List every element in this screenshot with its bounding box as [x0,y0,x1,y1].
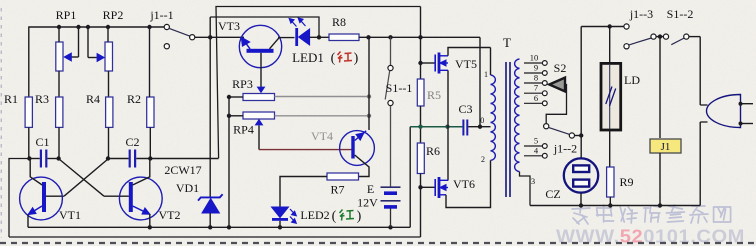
wire R3 bottom [58,127,60,158]
svg-text:(: ( [331,51,336,66]
resistor R6 [417,143,424,174]
node center tap [478,125,482,129]
wire cross C1-to-VT2base [59,159,104,196]
wire VT1 base stub [46,195,64,197]
wire J1 feed [659,37,661,138]
contact j1--3 out [651,34,656,39]
svg-text:CZ: CZ [545,187,560,201]
wire R1 bottom [28,127,30,158]
wire R7 left to LED2 [280,177,327,207]
node C2 right junction [148,156,152,160]
transformer core [506,62,510,197]
wire j1--3 to S1--2 [656,36,663,38]
svg-text:R2: R2 [127,92,141,106]
contact S1--1 top [388,65,393,70]
transistor VT6 MOSFET [435,177,448,198]
wire right main vertical [580,27,582,159]
wire secondary tap 3 [520,172,531,206]
svg-text:LED1: LED1 [292,50,324,65]
contact tap 8 [542,81,547,86]
wire top right [581,26,624,28]
transistor VT2 [119,177,162,220]
svg-text:VT3: VT3 [218,19,240,33]
socket CZ [564,158,598,192]
wire bottom rail left [28,226,410,228]
wire inner top link to R8 node [210,17,319,37]
RP1 wiper arrow [63,52,72,61]
node top rail x=78.5 [76,25,80,29]
wire rail down to center tap [479,37,481,126]
wire secondary tap 8 [524,82,542,84]
wire R5 feed from top [420,7,422,80]
wire RP2 bottom to R4 [108,71,110,97]
selector switch S2 wiper [549,78,565,92]
svg-text:RP4: RP4 [233,123,254,137]
svg-text:S2: S2 [554,61,567,75]
svg-text:j1--2: j1--2 [553,142,577,156]
svg-text:(: ( [332,209,337,224]
resistor R4 [106,97,113,127]
node green C3 [445,125,449,129]
contact j1--2 out [569,133,574,138]
node C2 left junction [106,156,110,160]
contact tap 5 [542,144,547,149]
wire C2 right [136,158,218,160]
wire R5 to green node [420,106,422,127]
wire VD1 cathode up [209,17,211,197]
transistor VT1 [20,177,63,220]
node S1--1 top [388,35,392,39]
LD center wire [609,65,611,129]
svg-text:1: 1 [484,70,488,79]
svg-text:LD: LD [624,73,640,87]
node R8 out [366,35,370,39]
node top rail x=88 [86,25,90,29]
contact S1--2 right [684,34,689,39]
node R9 bottom [608,203,612,207]
contact S1--2 left [663,34,668,39]
svg-text:R8: R8 [332,15,346,29]
capacitor C2 [130,150,135,168]
resistor R3 [56,97,63,127]
wire green node to R6 [420,127,422,143]
svg-text:VT5: VT5 [455,57,477,71]
wire LED2 down [279,221,281,228]
wire R9 down [609,197,611,206]
LED1 emission arrows [289,18,305,26]
label red char hong [338,52,353,63]
speaker stub bottom right [741,123,754,125]
svg-text:R9: R9 [619,175,633,189]
svg-text:9: 9 [534,63,538,73]
label green char lv [340,210,355,221]
svg-text:VT6: VT6 [453,177,475,191]
resistor R9 [607,167,614,197]
wire CZ down [580,193,582,206]
wire left section outline [9,159,29,238]
wire R8 right rail [359,36,480,38]
wire R2 bottom [149,127,151,158]
svg-text:8: 8 [534,73,538,83]
wire bottom rail right [530,205,700,207]
speaker stub top left [700,104,707,106]
resistor R1 [25,97,32,127]
svg-text:): ) [354,51,359,66]
wire green horizontal [410,126,462,128]
node bottom rail battery [388,225,392,229]
node bottom rail VD1 [208,225,212,229]
wire S1--2 to speaker [689,36,700,38]
lamp LD [601,63,621,130]
svg-text:S1--2: S1--2 [667,7,694,21]
wire R1 top feed [28,26,30,97]
wire secondary tap 6 [524,102,542,104]
wire secondary tap 5 [524,145,542,147]
resistor R8 [329,34,359,41]
svg-text:j1--1: j1--1 [149,8,173,22]
LED2 emission arrows [290,209,296,223]
node VD1 top [208,35,212,39]
svg-text:): ) [357,209,362,224]
svg-text:E: E [367,182,374,196]
wire cross C2-to-VT1base [64,159,108,196]
svg-text:VT1: VT1 [59,208,81,222]
svg-text:VT4: VT4 [311,129,333,143]
node LED1-R8 junction [317,35,321,39]
contact tap 4 [542,153,547,158]
j1--1 arm [169,28,190,36]
svg-text:7: 7 [534,83,538,93]
node RP4 left [227,114,231,118]
transistor VT3 [239,25,281,67]
node top rail x=108 [106,25,110,29]
wire RP3 right grey [275,96,370,98]
wire RP4 right grey [275,115,370,117]
contact tap 6 [542,101,547,106]
wire VT1 emitter down [27,215,29,228]
svg-text:6: 6 [534,93,538,103]
svg-text:C3: C3 [458,102,472,116]
contact j1--3 lower [624,44,629,49]
wire RP2 wiper up [87,27,89,58]
svg-text:RP1: RP1 [56,8,77,22]
node LD feed [608,24,612,28]
VT3 emitter arrow [242,38,250,49]
contact tap 10 [542,61,547,66]
wire RP1 top [58,27,60,42]
node speaker pin2 [739,122,743,126]
node top rail x=149.5 [147,25,151,29]
wire speaker feed down [699,37,701,105]
svg-text:3: 3 [531,176,535,186]
speaker stub bottom left [700,121,707,123]
wire S1--1 down to battery [390,106,392,187]
node speaker pin1 [739,102,743,106]
contact j1--1 common [164,24,169,29]
RP1 wiper line [69,56,79,58]
contact tap 9 [542,71,547,76]
node bottom rail RP bus [227,225,231,229]
svg-text:5: 5 [534,136,538,146]
potentiometer RP1 [56,42,63,71]
wire VT1 collector [30,159,42,186]
wire center tap [480,126,491,128]
node top rail x=59 [57,25,61,29]
svg-text:10: 10 [530,53,539,63]
wire VT5 source down [447,70,449,180]
wire VT6 source down [446,190,491,208]
node VT6 gate [418,185,422,189]
resistor R2 [147,97,154,127]
wire RP3 left [229,96,243,98]
wire RP4 left [229,115,243,117]
node VT5 gate [418,61,422,65]
wire VD1 anode down [209,213,211,227]
wire VT2 emitter down [149,214,151,227]
RP3 wiper arrow [257,87,266,94]
capacitor C3 [463,120,467,136]
S1--2 arm [671,38,684,45]
svg-text:R1: R1 [4,92,18,106]
wire C1 left [29,158,39,160]
wire VT5 drain up [448,48,491,56]
wire S1--1 top [390,37,392,65]
wire VT2 collector [133,159,150,186]
svg-text:RP2: RP2 [103,8,124,22]
wire VT6 gate lead [421,186,435,188]
wire R8node to VT4 collector [368,37,370,130]
wire battery minus down [390,207,392,227]
resistor R5 [417,79,424,106]
wire secondary tap 4 [524,155,542,157]
svg-text:R4: R4 [86,92,100,106]
j1--3 arm [629,38,651,45]
node RP4 right grey [367,114,371,118]
node J1 bottom [658,203,662,207]
wire RP1 wiper up [78,27,80,57]
speaker stub top right [741,103,754,105]
svg-text:0: 0 [480,116,484,125]
svg-text:S1--1: S1--1 [386,81,413,95]
capacitor C1 [41,150,46,168]
wire bottom outline [9,236,421,238]
potentiometer RP3 [243,94,275,101]
wire C1 right [47,158,58,160]
node bottom rail LED2 [278,225,282,229]
wire VT4 base maroon [259,149,352,151]
wire secondary tap 7 [524,92,542,94]
wire VT3 collector to LED1 [278,37,295,39]
RP4 wiper arrow [255,119,264,126]
VT4 collector arrow [355,131,367,141]
svg-text:J1: J1 [661,141,671,153]
wire R4 bottom [108,127,110,158]
resistor R7 [327,173,359,180]
wire VT2 base stub [104,195,129,197]
svg-text:LED2: LED2 [300,208,329,222]
RP2 wiper arrow [97,53,106,62]
speaker HA [707,95,741,128]
transistor VT4 [340,131,375,166]
svg-text:12V: 12V [357,196,378,210]
node C1 left junction [27,156,31,160]
contact S1--1 bottom [388,100,393,105]
node J1 feed [658,34,662,38]
svg-text:R3: R3 [35,92,49,106]
wire RP4 wiper down [258,126,260,150]
node bottom rail VT2 emitter [148,225,152,229]
wire j1--1 to VT3 emitter [195,36,244,38]
potentiometer RP2 [105,42,113,71]
svg-text:2CW17: 2CW17 [164,163,201,177]
svg-text:j1--3: j1--3 [629,7,653,21]
wire primary bottom [490,160,492,190]
S1--1 arm [385,71,390,100]
wire center-tap feed down [409,127,411,228]
wire VT3 collector [270,38,280,49]
wire speaker return [699,122,701,206]
node CZ bottom [579,203,583,207]
transistor VT5 MOSFET [435,53,448,74]
svg-text:R6: R6 [426,144,440,158]
wire RP1 bottom to R3 [58,71,60,97]
wire C2 left [108,158,129,160]
wire secondary tap 10 [524,62,542,64]
svg-text:C2: C2 [125,135,139,149]
VT1 emitter arrow [29,206,42,214]
node RP3 left [227,95,231,99]
j1--2 arm [548,127,569,134]
wire j1--2 to main [574,135,581,137]
wire VT3 base down [260,53,262,88]
node green R5R6 [418,125,422,129]
node j1--2 junction [579,133,583,137]
wire R6 down [420,174,422,238]
wire top supply rail left section [29,26,165,28]
node RP3 right grey [367,94,371,98]
contact j1--3 common [624,24,629,29]
watermark chinese characters [572,205,590,224]
svg-text:2: 2 [481,155,485,164]
node R5 feed [418,35,422,39]
wire LD top [609,27,611,64]
wire RP2 top [107,27,109,42]
svg-text:VT2: VT2 [159,208,181,222]
wire RP bus down [228,97,230,227]
contact j1--1 unused [164,44,169,49]
svg-text:C1: C1 [35,135,49,149]
wire C3 right [468,126,480,128]
svg-text:R7: R7 [330,183,344,197]
LD slashes [606,87,616,107]
wire R2 top feed [149,27,151,97]
wire VT4 emitter [355,155,369,177]
wire LED1 to R8 [310,36,329,38]
svg-text:RP3: RP3 [232,77,253,91]
transformer T primary winding [491,75,496,160]
potentiometer RP4 [243,112,275,119]
VT2 emitter arrow [133,206,150,214]
wire VT5 gate lead [421,62,436,64]
relay coil J1 [650,139,681,153]
LED LED1 [295,28,309,46]
transformer T secondary winding [515,59,520,172]
wire middle box outline [216,7,421,159]
contact j1--1 out [190,35,195,40]
svg-text:R5: R5 [427,88,441,102]
contact tap 7 [542,91,547,96]
node C1 right junction [56,156,60,160]
LED LED2 [272,207,289,221]
contact j1--2 in [544,124,549,129]
wire primary top feed [490,48,492,76]
battery E [381,187,401,207]
svg-text:T: T [503,35,511,50]
zener diode VD1 2CW17 [198,194,223,213]
RP2 wiper line [88,57,98,59]
wire LD bottom [609,130,611,167]
svg-text:VD1: VD1 [176,181,199,195]
wire secondary tap 9 [524,72,542,74]
wire S2 wiper out [546,85,566,124]
wire J1 down [659,153,661,206]
